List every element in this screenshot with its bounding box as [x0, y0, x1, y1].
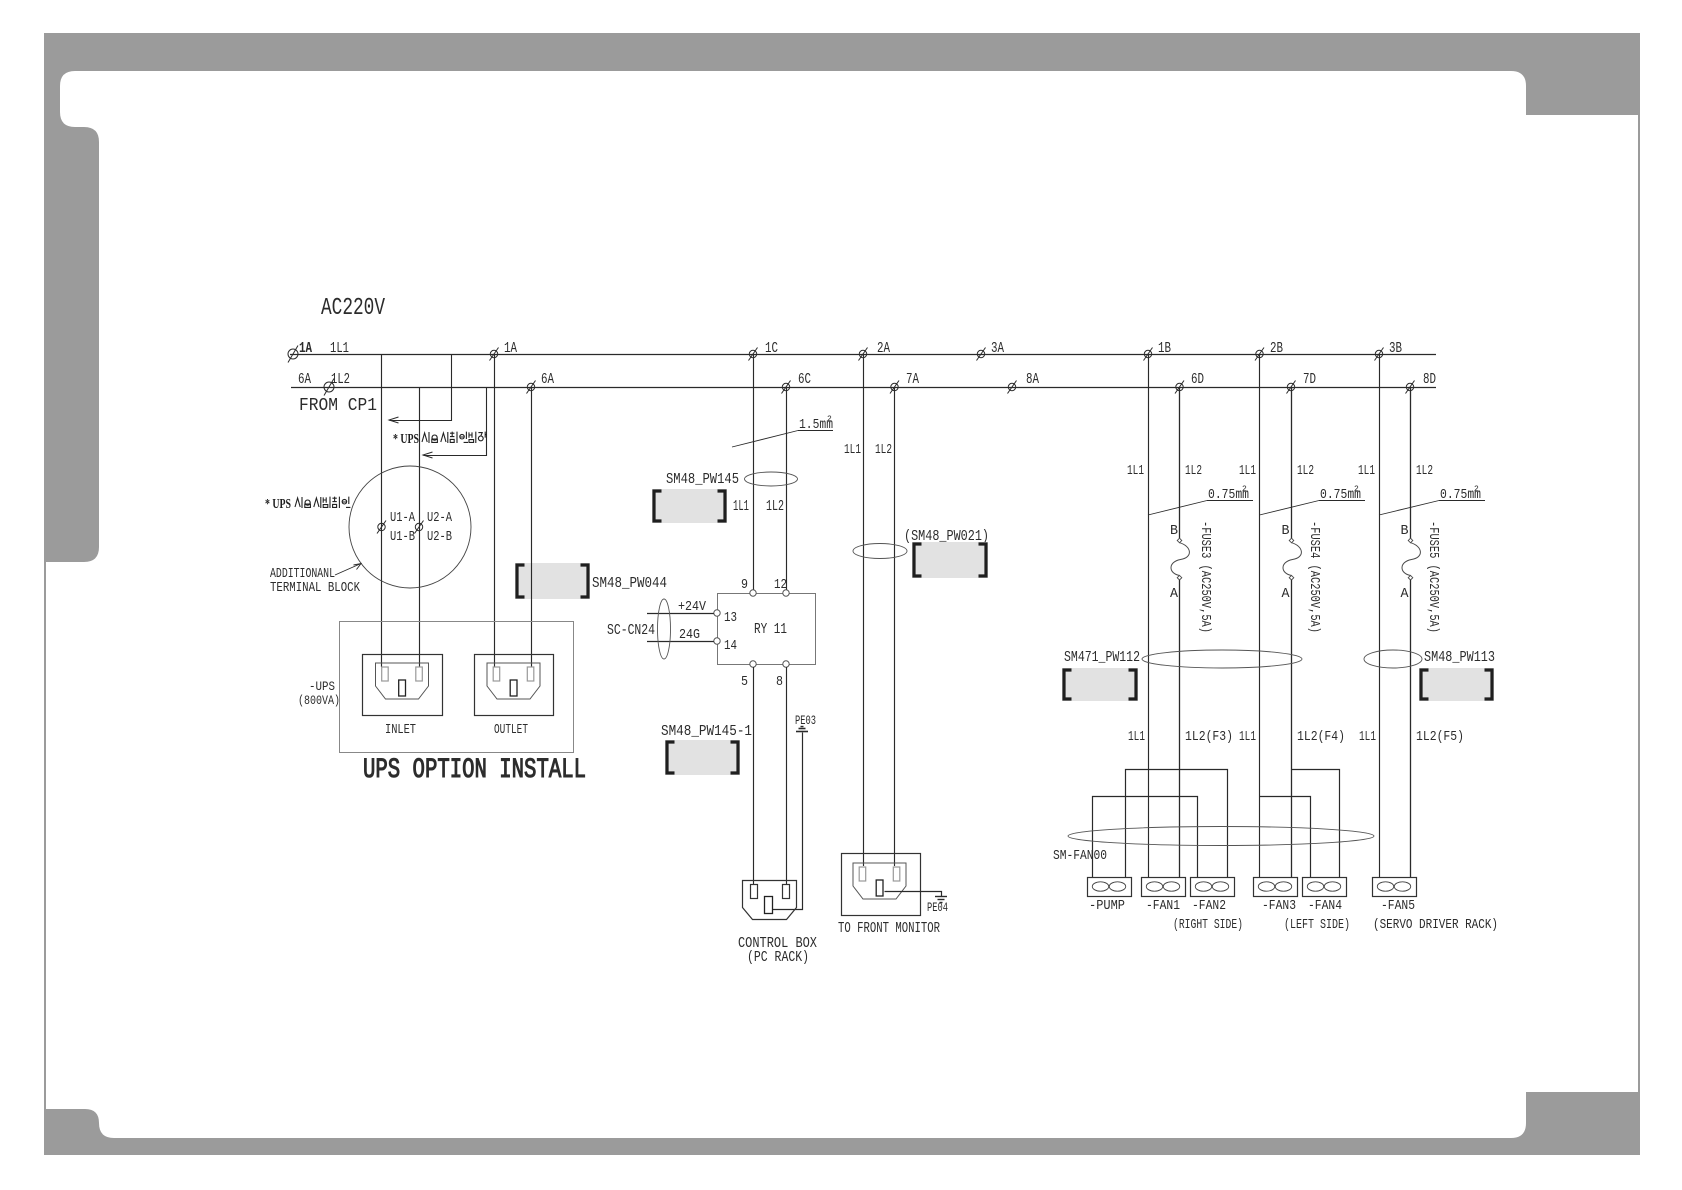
svg-text:7D: 7D	[1303, 371, 1316, 388]
wire stub arrow 2	[424, 388, 487, 456]
node 8A bus2	[1008, 383, 1015, 390]
fan -FAN2	[1191, 878, 1235, 897]
svg-text:1B: 1B	[1158, 340, 1171, 357]
svg-text:B: B	[1401, 523, 1409, 539]
node bus2 start bus2	[324, 382, 334, 392]
connector SM48_PW145	[652, 489, 727, 523]
cable ellipse SM471_PW112	[1142, 650, 1302, 668]
terminal U2	[415, 523, 422, 530]
svg-text:1L1: 1L1	[1239, 463, 1256, 479]
fuse FUSE3	[1179, 387, 1181, 539]
svg-text:-FAN4: -FAN4	[1308, 898, 1342, 914]
svg-text:1L1: 1L1	[330, 340, 349, 357]
svg-text:8: 8	[776, 674, 783, 690]
node 6A bus2	[527, 383, 534, 390]
svg-text:-FAN2: -FAN2	[1192, 898, 1226, 914]
svg-text:PE03: PE03	[795, 713, 816, 728]
connector ellipse SC-CN24	[658, 599, 671, 659]
control box plug	[743, 881, 797, 920]
svg-text:SM471_PW112: SM471_PW112	[1064, 649, 1140, 666]
svg-text:1C: 1C	[765, 340, 778, 357]
fan -FAN5	[1373, 878, 1417, 897]
svg-text:* UPS: * UPS	[265, 496, 291, 511]
wire fan rail row1 right	[1292, 770, 1340, 878]
wire 1B down to FAN1	[1148, 354, 1150, 877]
svg-text:2B: 2B	[1270, 340, 1283, 357]
svg-text:1A: 1A	[299, 340, 312, 357]
relay pin circles	[750, 590, 756, 596]
leader to terminal block	[335, 564, 361, 576]
svg-text:U1-B: U1-B	[390, 529, 415, 545]
cable marker ellipse SM48_PW021	[853, 544, 907, 559]
svg-text:INLET: INLET	[385, 722, 416, 738]
svg-text:+24V: +24V	[678, 599, 706, 615]
svg-text:SM48_PW145: SM48_PW145	[666, 471, 739, 488]
svg-text:U2-B: U2-B	[427, 529, 452, 545]
svg-text:1L2: 1L2	[1297, 463, 1314, 479]
svg-text:1L1: 1L1	[1359, 729, 1376, 745]
svg-text:1L2: 1L2	[1416, 463, 1433, 479]
svg-text:9: 9	[741, 577, 748, 593]
svg-text:-UPS: -UPS	[309, 679, 335, 694]
svg-text:6A: 6A	[298, 371, 311, 388]
svg-text:OUTLET: OUTLET	[494, 722, 528, 738]
svg-text:* UPS: * UPS	[393, 431, 419, 446]
additional terminal block circle	[349, 466, 471, 588]
cable ellipse SM48_PW113	[1364, 650, 1422, 668]
svg-text:3B: 3B	[1389, 340, 1402, 357]
svg-text:PE04: PE04	[927, 900, 948, 915]
wire fan rail row2 right	[1260, 797, 1311, 878]
svg-text:6A: 6A	[541, 371, 554, 388]
svg-text:1L1: 1L1	[733, 498, 749, 515]
ground PE04	[885, 892, 942, 897]
svg-text:RY 11: RY 11	[754, 621, 787, 638]
node 3A bus1	[977, 350, 984, 357]
svg-text:1L2: 1L2	[331, 371, 350, 388]
svg-text:A: A	[1401, 586, 1410, 602]
svg-text:TO FRONT MONITOR: TO FRONT MONITOR	[838, 920, 940, 937]
connector SM48_PW021	[912, 542, 988, 578]
wire bus1 to UPS inlet L1	[381, 354, 383, 667]
wire bus 1L1	[290, 354, 1436, 356]
svg-text:1L2(F5): 1L2(F5)	[1416, 729, 1464, 745]
wire fan rail row2 left	[1093, 797, 1198, 878]
svg-text:A: A	[1170, 586, 1179, 602]
wire 7A to monitor	[894, 387, 896, 866]
wire 6C to RY pin12	[786, 387, 788, 590]
wire 2A to monitor	[863, 354, 865, 866]
svg-text:2: 2	[1354, 485, 1359, 494]
wire +24V to pin13	[647, 613, 714, 615]
svg-text:(SERVO DRIVER RACK): (SERVO DRIVER RACK)	[1373, 917, 1498, 933]
svg-text:SM48_PW044: SM48_PW044	[592, 575, 667, 592]
svg-text:B: B	[1170, 523, 1178, 539]
node 1B bus1	[1144, 350, 1151, 357]
node 6C bus2	[782, 383, 789, 390]
cable ellipse SM-FAN00	[1068, 827, 1374, 846]
svg-text:-FAN5: -FAN5	[1381, 898, 1415, 914]
connector SM471_PW112	[1062, 668, 1138, 701]
fuse FUSE5	[1410, 387, 1412, 539]
wire RY pin5 to control box	[753, 667, 755, 884]
svg-text:-PUMP: -PUMP	[1089, 898, 1125, 914]
svg-text:2: 2	[827, 415, 832, 424]
connector SM48_PW113	[1419, 668, 1494, 701]
svg-text:14: 14	[724, 638, 737, 654]
svg-text:1L2: 1L2	[1185, 463, 1202, 479]
wire PE03 ground to control box	[773, 733, 803, 910]
svg-text:FROM CP1: FROM CP1	[299, 396, 377, 416]
connector UPS OUTLET	[475, 655, 554, 716]
fan -PUMP	[1088, 878, 1132, 897]
svg-text:SM48_PW113: SM48_PW113	[1424, 649, 1495, 666]
svg-text:2A: 2A	[877, 340, 890, 357]
svg-text:-FUSE3 (AC250V,5A): -FUSE3 (AC250V,5A)	[1197, 521, 1213, 633]
svg-text:6D: 6D	[1191, 371, 1204, 388]
svg-text:1L1: 1L1	[1127, 463, 1144, 479]
relay RY 11 box	[718, 594, 816, 665]
svg-text:1L1: 1L1	[1239, 729, 1256, 745]
node 1A bus1	[490, 350, 497, 357]
svg-text:2: 2	[1242, 485, 1247, 494]
svg-text:SM-FAN00: SM-FAN00	[1053, 848, 1107, 864]
wire stub arrow 1	[390, 355, 452, 421]
svg-text:(LEFT SIDE): (LEFT SIDE)	[1284, 917, 1350, 933]
svg-text:1L1: 1L1	[844, 442, 861, 458]
fan -FAN3	[1254, 878, 1298, 897]
node 1C bus1	[749, 350, 756, 357]
node 8D bus2	[1406, 383, 1413, 390]
svg-text:-FAN3: -FAN3	[1262, 898, 1296, 914]
svg-text:1L2(F4): 1L2(F4)	[1297, 729, 1345, 745]
node 7D bus2	[1287, 383, 1294, 390]
wire 2B down to FAN3	[1259, 354, 1261, 877]
svg-text:13: 13	[724, 610, 737, 626]
svg-text:-FAN1: -FAN1	[1146, 898, 1180, 914]
wire bus2 to UPS inlet L2	[419, 387, 421, 667]
svg-text:-FUSE5 (AC250V,5A): -FUSE5 (AC250V,5A)	[1425, 521, 1441, 633]
node 7A bus2	[891, 383, 898, 390]
svg-text:(RIGHT SIDE): (RIGHT SIDE)	[1173, 917, 1243, 933]
wire 3B down to FAN5	[1379, 354, 1381, 877]
svg-text:1A: 1A	[504, 340, 517, 357]
svg-text:1L2: 1L2	[766, 498, 784, 515]
connector UPS INLET	[363, 655, 443, 716]
front monitor connector	[842, 854, 921, 916]
wire RY pin8 to control box	[786, 667, 788, 884]
svg-text:24G: 24G	[679, 627, 700, 643]
node 1A bus1	[288, 349, 298, 359]
wire through SM48_PW044	[531, 563, 533, 599]
svg-text:1L1: 1L1	[1358, 463, 1375, 479]
wire 1C to RY pin9	[753, 354, 755, 590]
svg-text:8D: 8D	[1423, 371, 1436, 388]
node 2A bus1	[859, 350, 866, 357]
wire 1A node to outlet	[494, 354, 496, 667]
terminal U1	[378, 523, 385, 530]
svg-text:B: B	[1282, 523, 1290, 539]
wire 24G to pin14	[647, 641, 714, 643]
svg-text:5: 5	[741, 674, 748, 690]
svg-text:8A: 8A	[1026, 371, 1039, 388]
svg-text:1L2: 1L2	[875, 442, 892, 458]
connector SM48_PW044	[515, 563, 590, 599]
svg-text:-FUSE4 (AC250V,5A): -FUSE4 (AC250V,5A)	[1306, 521, 1322, 633]
svg-text:(PC RACK): (PC RACK)	[747, 949, 809, 966]
wire bus 1L2	[291, 387, 1436, 389]
svg-text:AC220V: AC220V	[321, 295, 385, 322]
svg-text:U2-A: U2-A	[427, 510, 452, 526]
fuse FUSE4	[1291, 387, 1293, 539]
UPS option box	[340, 622, 574, 753]
wire 6A node to outlet	[531, 387, 533, 667]
wire fan rail row1 left	[1126, 770, 1228, 878]
cable marker ellipse SM48_PW145	[745, 472, 798, 486]
svg-text:(800VA): (800VA)	[298, 693, 340, 708]
svg-text:6C: 6C	[798, 371, 811, 388]
svg-text:U1-A: U1-A	[390, 510, 415, 526]
svg-text:SM48_PW145-1: SM48_PW145-1	[661, 723, 752, 740]
svg-text:1L1: 1L1	[1128, 729, 1145, 745]
svg-text:12: 12	[774, 577, 787, 593]
svg-text:SC-CN24: SC-CN24	[607, 622, 655, 639]
svg-text:7A: 7A	[906, 371, 919, 388]
node 2B bus1	[1256, 350, 1263, 357]
node 6D bus2	[1176, 383, 1183, 390]
fan -FAN4	[1303, 878, 1347, 897]
svg-text:TERMINAL BLOCK: TERMINAL BLOCK	[270, 580, 360, 596]
fan -FAN1	[1142, 878, 1186, 897]
svg-text:3A: 3A	[991, 340, 1004, 357]
svg-text:2: 2	[1474, 485, 1479, 494]
svg-text:1L2(F3): 1L2(F3)	[1185, 729, 1233, 745]
node 3B bus1	[1375, 350, 1382, 357]
svg-text:A: A	[1282, 586, 1291, 602]
svg-text:UPS OPTION INSTALL: UPS OPTION INSTALL	[363, 755, 586, 786]
